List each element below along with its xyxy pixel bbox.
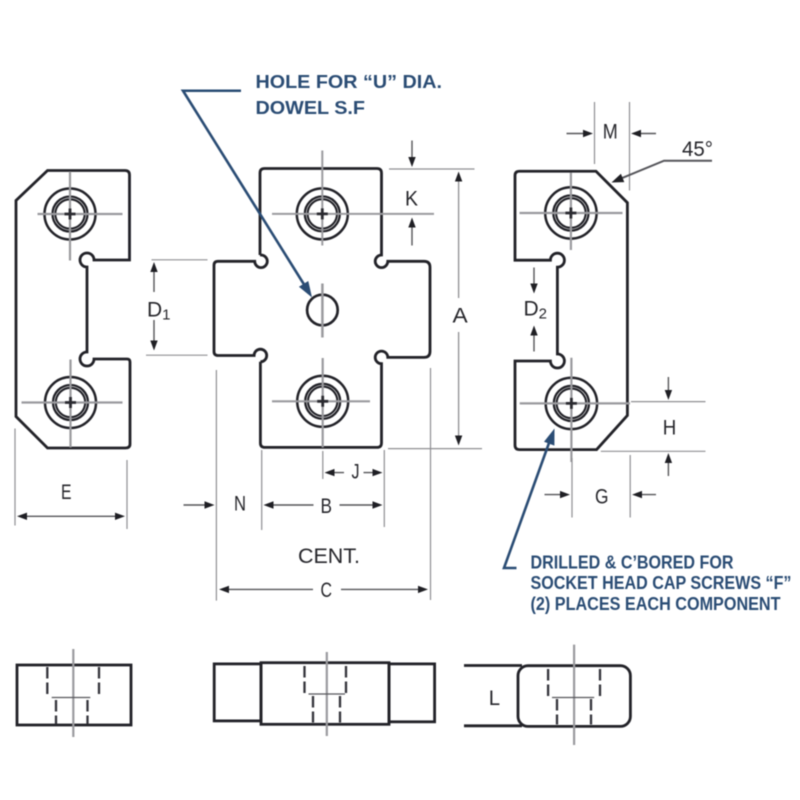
right plate top hole drill [553, 195, 588, 230]
left plate top hole drill [53, 197, 88, 232]
dimension E extension lines [15, 429, 127, 530]
dimension D1 arrows [153, 271, 155, 342]
dimension M extension lines [595, 102, 630, 191]
svg-text:L: L [489, 687, 500, 710]
dimension B extension lines [262, 450, 385, 530]
svg-text:N: N [234, 493, 246, 516]
center plate bottom hole inner [308, 387, 337, 416]
left plate top hole inner [55, 199, 84, 228]
svg-text:J: J [352, 461, 360, 484]
right plate top hole crosshair [520, 173, 623, 251]
dimension C line and arrows [227, 588, 420, 590]
dimension A line and arrows [458, 180, 460, 437]
C/N shared left extension line [215, 370, 217, 601]
left plate bottom hole counterbore [45, 377, 96, 428]
C right extension line [430, 368, 432, 600]
middle section drill hidden lines [313, 696, 340, 723]
dimension M arrows and tails [567, 133, 657, 135]
svg-text:M: M [603, 121, 618, 144]
left plate bottom hole crosshair [22, 360, 123, 448]
dimension K extension line upper [389, 168, 475, 170]
right section counterbore hidden lines [548, 669, 600, 696]
dimension D1 extension lines [146, 260, 208, 355]
center plate bottom hole drill [305, 384, 340, 419]
svg-text:SOCKET HEAD CAP SCREWS “F”: SOCKET HEAD CAP SCREWS “F” [531, 573, 792, 593]
right plate bottom hole inner [557, 389, 587, 419]
right section centerline [573, 645, 575, 745]
svg-text:DRILLED & C’BORED FOR: DRILLED & C’BORED FOR [531, 553, 734, 573]
center plate left band edge [214, 255, 267, 362]
center plate dowel hole crosshair [321, 284, 324, 338]
dimension D2 arrows [533, 268, 535, 352]
center plate top hole crosshair [272, 151, 434, 246]
45 degree leader [622, 161, 712, 178]
center plate dowel hole [307, 295, 338, 326]
dimension G extension lines [572, 455, 630, 518]
right plate bottom hole drill [554, 386, 589, 421]
left plate top hole crosshair [38, 172, 123, 261]
dimension J line and arrows [332, 472, 375, 474]
dimension G arrows [545, 494, 657, 496]
left section counterbore bottom [52, 697, 91, 699]
center plate upper block [260, 169, 430, 448]
svg-text:G: G [595, 486, 609, 509]
middle section counterbore hidden lines [305, 666, 347, 694]
right section rounded block [518, 666, 630, 727]
hole center marks [65, 208, 577, 409]
center plate top hole inner [308, 199, 337, 228]
right plate bottom hole counterbore [546, 378, 597, 429]
dimension E line [20, 515, 122, 517]
blue callout: drilled and cbored leader [504, 443, 549, 568]
svg-text:CENT.: CENT. [298, 545, 360, 568]
dimension K arrows [411, 141, 413, 246]
svg-text:B: B [321, 495, 333, 518]
left plate outline [16, 171, 130, 449]
dimension A bottom extension line [388, 448, 482, 450]
right plate bottom hole crosshair [520, 358, 630, 462]
svg-text:K: K [405, 188, 418, 211]
svg-text:HOLE FOR “U” DIA.: HOLE FOR “U” DIA. [256, 72, 443, 92]
dimension H extension lines [601, 402, 706, 452]
svg-text:E: E [61, 481, 72, 504]
right section counterbore bottom [552, 697, 594, 699]
center plate bottom hole crosshair [272, 358, 370, 448]
dimension B line and arrows [271, 504, 374, 506]
svg-text:DOWEL S.F: DOWEL S.F [256, 98, 366, 118]
middle section view outlines [214, 664, 261, 721]
svg-text:45°: 45° [682, 138, 713, 161]
dimension N arrow [184, 504, 207, 506]
svg-text:A: A [453, 305, 468, 328]
blue callout: hole for U dia leader [183, 91, 305, 286]
right plate outline [515, 171, 627, 449]
center plate top hole drill [305, 196, 340, 231]
middle section counterbore bottom [309, 693, 346, 695]
left section drill hidden lines [56, 700, 88, 724]
left section view outline [17, 665, 131, 725]
svg-text:D1: D1 [147, 299, 171, 324]
dimension J left extension (centerline below plate) [322, 451, 324, 479]
svg-text:D2: D2 [524, 298, 548, 323]
center plate top hole counterbore [297, 188, 348, 239]
right section drill hidden lines [557, 699, 591, 725]
left plate bottom hole inner [56, 388, 85, 417]
center plate bottom hole counterbore [297, 376, 348, 427]
svg-text:C: C [321, 579, 333, 602]
right section channel lines [464, 666, 522, 726]
right plate top hole counterbore [545, 187, 596, 238]
left section counterbore hidden lines [47, 667, 99, 698]
svg-text:(2) PLACES EACH COMPONENT: (2) PLACES EACH COMPONENT [531, 594, 781, 614]
middle section centerline [326, 652, 328, 736]
left section centerline [72, 649, 74, 737]
left plate top hole counterbore [45, 189, 96, 240]
dimension H arrows [667, 377, 669, 476]
right plate top hole inner [556, 198, 586, 228]
left plate bottom hole drill [53, 385, 88, 420]
svg-text:H: H [663, 417, 677, 440]
